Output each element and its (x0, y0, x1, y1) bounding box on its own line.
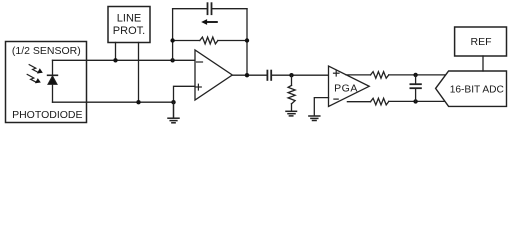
wire: top rail (inverting input net) (53, 59, 196, 61)
ADC U3 (436, 71, 507, 106)
svg-text:(1/2 SENSOR): (1/2 SENSOR) (12, 45, 81, 57)
svg-text:PHOTODIODE: PHOTODIODE (12, 109, 82, 121)
wire: feedback right vertical (246, 9, 248, 76)
ground 2 (286, 111, 297, 116)
resistor R4 (bottom output) (347, 98, 445, 105)
wire: line prot lead 1 (115, 43, 117, 61)
wire: bottom rail (photodiode anode net) (53, 101, 174, 103)
capacitor C1 (feedback) (173, 3, 247, 14)
photodiode D1 (48, 75, 58, 84)
resistor R3 (top output) (346, 72, 446, 79)
PGA U2 (329, 66, 370, 107)
svg-text:16-BIT ADC: 16-BIT ADC (450, 85, 504, 96)
photodiode sensor box (6, 42, 87, 123)
node: dot feedback right / output (245, 73, 249, 77)
resistor R2 (shunt) (288, 75, 295, 111)
wire: diode cathode to top rail corner (52, 60, 54, 102)
wire: REF to ADC (482, 56, 484, 71)
REF box (455, 27, 507, 56)
node: dot shunt resistor tap (289, 73, 293, 77)
resistor R1 (feedback) (173, 37, 247, 44)
capacitor C2 (AC coupling) (267, 71, 328, 80)
svg-text:LINE: LINE (117, 13, 141, 25)
ground 1 (168, 102, 179, 123)
light arrow 2 (27, 74, 41, 83)
svg-text:PROT.: PROT. (113, 25, 145, 37)
svg-text:PGA: PGA (334, 83, 358, 95)
node: dot feedback right / resistor rail (245, 38, 249, 42)
op-amp U1 (195, 50, 232, 100)
node: dot feedback left / resistor rail (170, 38, 174, 42)
wire: line prot lead 2 (138, 43, 140, 103)
node: dot line-prot lead2 / bottom rail (136, 100, 140, 104)
capacitor C3 (differential) (410, 75, 421, 102)
line protection box (108, 7, 150, 43)
light arrow 1 (29, 65, 43, 74)
node: dot line-prot lead1 / top rail (113, 58, 117, 62)
wire: op-amp output (232, 74, 267, 76)
wire: feedback left vertical (172, 9, 174, 61)
node: dot cap top (413, 73, 417, 77)
wire: jog up to op-amp non-inverting input (174, 86, 196, 102)
ground 3 (309, 116, 320, 121)
node: dot cap bottom (413, 99, 417, 103)
arrow (gain direction) (201, 19, 217, 25)
node: dot feedback left / top rail (170, 58, 174, 62)
node: dot jog / bottom rail / ground (171, 100, 175, 104)
svg-text:REF: REF (471, 36, 492, 48)
wire: PGA inverting input to ground (314, 98, 328, 116)
